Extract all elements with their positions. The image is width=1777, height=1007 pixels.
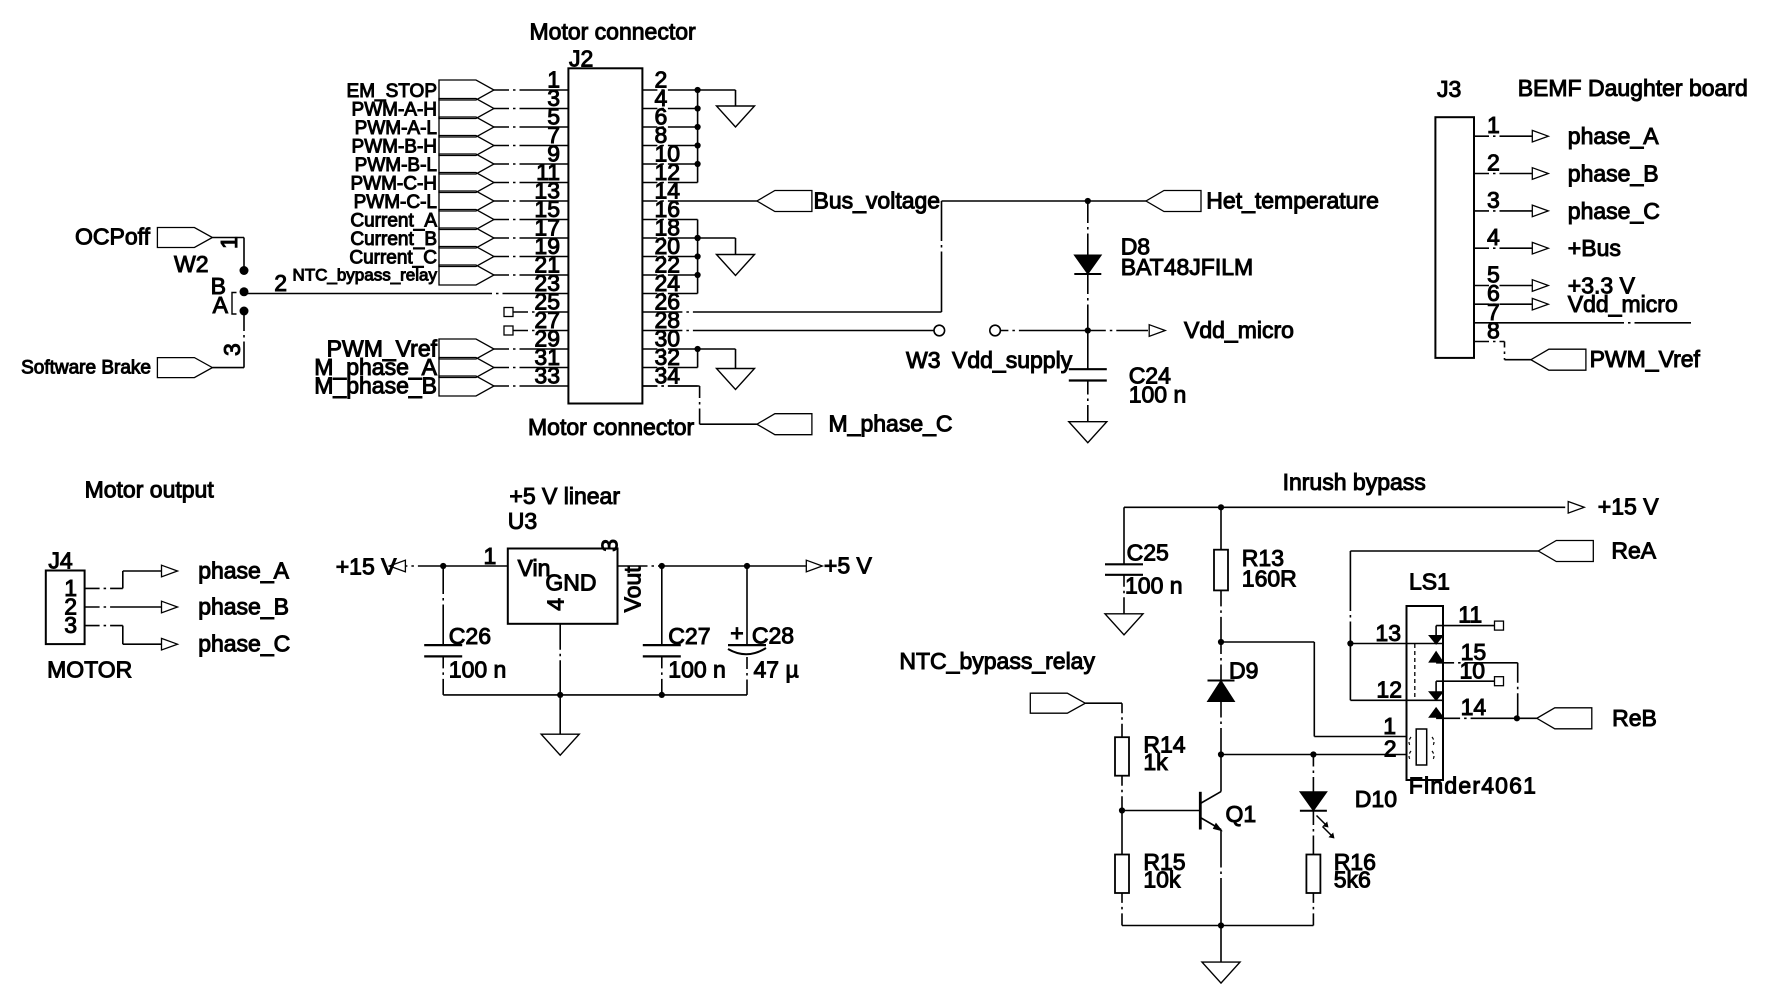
svg-text:3: 3 [219,343,245,356]
svg-text:1: 1 [216,236,242,249]
svg-text:BAT48JFILM: BAT48JFILM [1121,254,1254,280]
svg-text:+: + [730,620,743,646]
svg-text:160R: 160R [1242,566,1297,592]
svg-text:GND: GND [545,570,596,596]
svg-text:Software Brake: Software Brake [21,358,151,379]
svg-text:D10: D10 [1355,786,1397,812]
svg-text:33: 33 [534,363,560,389]
svg-text:J3: J3 [1437,76,1461,102]
svg-text:34: 34 [655,363,681,389]
svg-text:D9: D9 [1229,658,1258,684]
svg-text:+5 V linear: +5 V linear [509,483,620,509]
svg-text:phase_A: phase_A [1568,123,1659,149]
svg-text:phase_A: phase_A [198,558,289,584]
svg-text:13: 13 [1375,620,1401,646]
svg-text:4: 4 [1487,224,1500,250]
svg-text:Vdd_micro: Vdd_micro [1184,317,1294,343]
svg-text:Het_temperature: Het_temperature [1206,188,1379,214]
svg-text:2: 2 [1487,150,1500,176]
svg-text:W3: W3 [906,347,941,373]
svg-text:5k6: 5k6 [1334,867,1371,893]
svg-text:MOTOR: MOTOR [47,657,132,683]
svg-text:+5 V: +5 V [824,553,873,579]
svg-text:W2: W2 [174,251,209,277]
svg-text:1k: 1k [1143,749,1168,775]
svg-text:ReB: ReB [1612,705,1657,731]
svg-text:PWM_Vref: PWM_Vref [1590,346,1701,372]
svg-text:U3: U3 [508,508,537,534]
svg-text:NTC_bypass_relay: NTC_bypass_relay [292,266,437,285]
svg-text:+Bus: +Bus [1568,235,1621,261]
svg-text:BEMF Daughter board: BEMF Daughter board [1518,75,1748,101]
svg-text:+15 V: +15 V [1598,494,1659,520]
svg-text:phase_B: phase_B [1568,161,1659,187]
svg-text:C25: C25 [1127,540,1169,566]
svg-text:phase_C: phase_C [1568,198,1660,224]
svg-text:Vdd_supply: Vdd_supply [952,347,1073,373]
svg-text:2: 2 [1384,736,1397,762]
svg-text:Vout: Vout [620,566,646,613]
svg-text:100 n: 100 n [1125,573,1183,599]
svg-text:3: 3 [64,612,77,638]
svg-text:3: 3 [597,539,623,552]
svg-text:Inrush bypass: Inrush bypass [1283,469,1426,495]
svg-text:+15 V: +15 V [336,554,397,580]
svg-text:100 n: 100 n [1129,382,1187,408]
svg-text:Vdd_micro: Vdd_micro [1568,291,1678,317]
svg-text:Bus_voltage: Bus_voltage [814,188,941,214]
svg-text:14: 14 [1461,694,1487,720]
svg-text:Q1: Q1 [1226,801,1257,827]
svg-text:LS1: LS1 [1409,569,1450,595]
svg-text:12: 12 [1376,677,1402,703]
svg-text:1: 1 [1487,112,1500,138]
svg-text:Motor connector: Motor connector [530,19,697,45]
svg-text:ReA: ReA [1611,538,1656,564]
svg-text:phase_B: phase_B [198,594,289,620]
svg-text:C28: C28 [752,623,794,649]
svg-text:3: 3 [1487,187,1500,213]
svg-text:Motor connector: Motor connector [528,414,695,440]
svg-text:100 n: 100 n [668,657,726,683]
svg-text:NTC_bypass_relay: NTC_bypass_relay [899,648,1095,674]
svg-text:2: 2 [274,270,287,296]
svg-text:8: 8 [1487,318,1500,344]
svg-text:100 n: 100 n [449,657,507,683]
svg-text:M_phase_C: M_phase_C [829,411,953,437]
svg-text:phase_C: phase_C [198,631,290,657]
svg-text:OCPoff: OCPoff [75,224,151,250]
svg-text:C27: C27 [668,623,710,649]
svg-text:47 µ: 47 µ [754,657,799,683]
svg-text:10: 10 [1460,657,1486,683]
svg-text:1: 1 [484,543,497,569]
svg-text:4: 4 [543,598,569,611]
svg-text:A: A [213,292,229,318]
svg-text:11: 11 [1458,602,1482,628]
svg-text:Motor output: Motor output [85,477,215,503]
svg-text:10k: 10k [1143,867,1181,893]
svg-text:M_phase_B: M_phase_B [314,373,437,399]
svg-text:Finder4061: Finder4061 [1409,773,1537,799]
svg-text:C26: C26 [449,623,491,649]
